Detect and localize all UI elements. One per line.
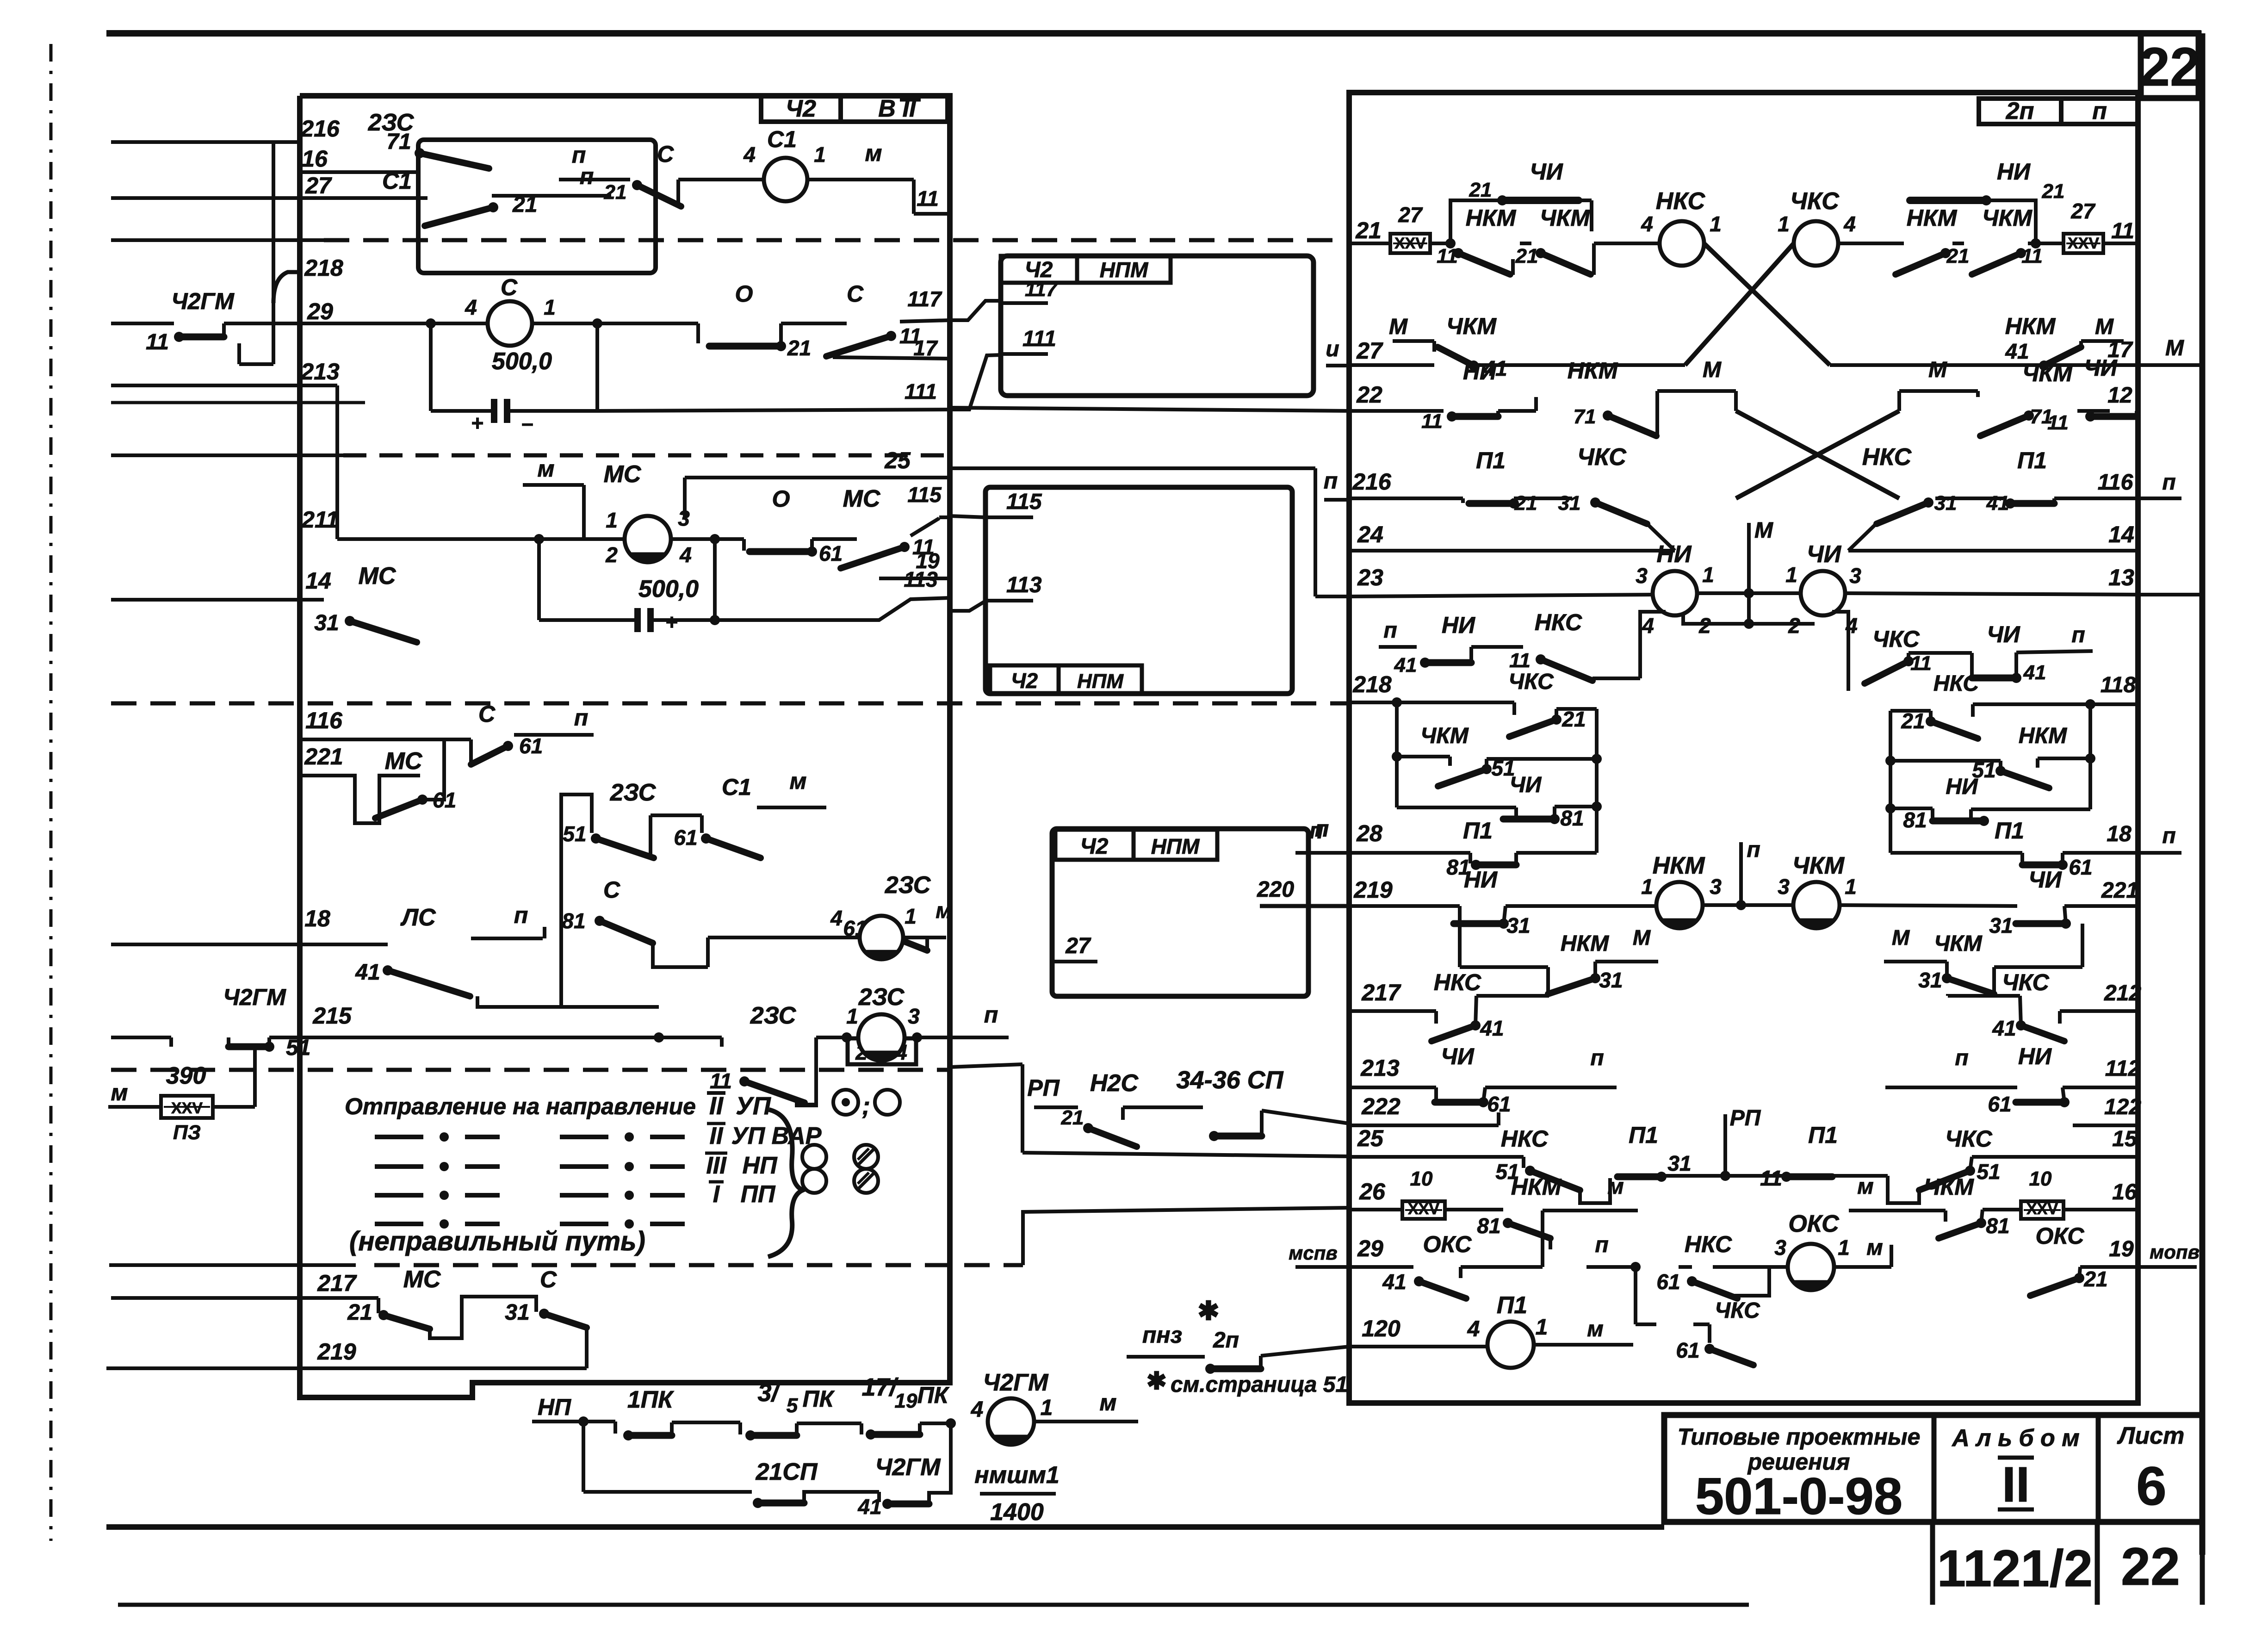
svg-text:11: 11 xyxy=(2021,245,2043,267)
svg-text:17: 17 xyxy=(913,336,938,360)
svg-text:п: п xyxy=(1309,818,1324,844)
svg-text:213: 213 xyxy=(1360,1055,1400,1081)
svg-text:71: 71 xyxy=(1574,405,1596,428)
svg-text:Типовые проектные: Типовые проектные xyxy=(1678,1424,1921,1450)
svg-text:НП: НП xyxy=(743,1152,778,1179)
svg-text:21: 21 xyxy=(1514,492,1537,515)
svg-text:41: 41 xyxy=(1480,1016,1504,1040)
svg-text:М: М xyxy=(2095,315,2114,339)
svg-text:НКМ: НКМ xyxy=(2005,313,2056,339)
svg-text:27: 27 xyxy=(305,173,332,199)
svg-text:2: 2 xyxy=(605,543,618,567)
svg-text:29: 29 xyxy=(307,298,333,324)
svg-text:мопв: мопв xyxy=(2150,1241,2200,1263)
svg-text:219: 219 xyxy=(317,1339,356,1365)
svg-text:1: 1 xyxy=(1041,1396,1053,1420)
svg-text:М: М xyxy=(1389,315,1408,339)
svg-text:41: 41 xyxy=(1992,1016,2016,1040)
svg-text:118: 118 xyxy=(2101,673,2136,697)
svg-text:п: п xyxy=(1590,1046,1604,1070)
svg-text:216: 216 xyxy=(1352,469,1392,495)
svg-text:3: 3 xyxy=(1710,875,1722,899)
svg-text:ПП: ПП xyxy=(741,1181,776,1208)
svg-text:п: п xyxy=(2092,98,2107,124)
svg-text:НКМ: НКМ xyxy=(1511,1174,1562,1200)
svg-text:501-0-98: 501-0-98 xyxy=(1695,1467,1902,1525)
svg-text:4: 4 xyxy=(1642,614,1654,638)
svg-text:5: 5 xyxy=(787,1394,798,1417)
svg-text:Ч2: Ч2 xyxy=(1080,834,1109,859)
svg-text:4: 4 xyxy=(1641,212,1653,236)
svg-text:пнз: пнз xyxy=(1142,1322,1182,1348)
svg-text:–: – xyxy=(521,411,533,435)
svg-text:М: М xyxy=(1928,358,1947,382)
svg-text:1: 1 xyxy=(606,508,618,532)
svg-text:м: м xyxy=(1857,1174,1874,1199)
svg-text:16: 16 xyxy=(302,146,328,172)
svg-text:11: 11 xyxy=(1760,1166,1782,1190)
svg-text:10: 10 xyxy=(1410,1167,1433,1190)
svg-text:4: 4 xyxy=(1467,1317,1480,1341)
svg-text:216: 216 xyxy=(300,116,340,142)
svg-text:500,0: 500,0 xyxy=(492,348,552,375)
svg-text:23: 23 xyxy=(1357,565,1383,590)
svg-text:1: 1 xyxy=(905,904,917,928)
svg-text:218: 218 xyxy=(304,255,343,281)
svg-text:14: 14 xyxy=(305,568,331,594)
svg-text:ЧИ: ЧИ xyxy=(1987,621,2020,647)
svg-text:28: 28 xyxy=(1356,820,1382,846)
svg-text:81: 81 xyxy=(1560,806,1584,830)
svg-text:Ч2: Ч2 xyxy=(786,95,816,122)
svg-text:II: II xyxy=(710,1123,724,1149)
svg-text:21: 21 xyxy=(347,1300,372,1325)
svg-text:НКМ: НКМ xyxy=(1561,931,1609,956)
svg-text:51: 51 xyxy=(563,822,586,846)
svg-text:19: 19 xyxy=(895,1390,917,1412)
svg-text:11: 11 xyxy=(1910,652,1932,675)
svg-text:п: п xyxy=(2162,824,2175,848)
svg-text:РП: РП xyxy=(1730,1106,1761,1130)
svg-text:21: 21 xyxy=(2042,180,2065,203)
svg-text:27: 27 xyxy=(1398,203,1423,227)
svg-text:П1: П1 xyxy=(1808,1122,1838,1148)
svg-text:71: 71 xyxy=(386,130,411,154)
svg-text:НИ: НИ xyxy=(1442,612,1475,638)
svg-text:ЧИ: ЧИ xyxy=(1530,159,1563,185)
svg-text:41: 41 xyxy=(1394,654,1417,677)
svg-text:1: 1 xyxy=(1838,1235,1850,1260)
svg-text:НКС: НКС xyxy=(1501,1126,1549,1152)
svg-text:81: 81 xyxy=(562,909,585,933)
svg-text:;: ; xyxy=(862,1092,870,1120)
svg-text:51: 51 xyxy=(1977,1160,2000,1184)
svg-text:НПМ: НПМ xyxy=(1077,670,1124,693)
svg-text:117: 117 xyxy=(1025,278,1059,301)
svg-text:21: 21 xyxy=(2083,1267,2107,1291)
svg-text:27: 27 xyxy=(2070,199,2096,223)
svg-text:3/: 3/ xyxy=(757,1379,781,1407)
svg-text:81: 81 xyxy=(1986,1214,2009,1238)
svg-text:3: 3 xyxy=(1849,564,1861,588)
svg-text:ЧИ: ЧИ xyxy=(1441,1043,1474,1069)
svg-text:11: 11 xyxy=(1509,649,1531,672)
svg-text:16: 16 xyxy=(2112,1180,2137,1204)
svg-text:Ч2: Ч2 xyxy=(1011,669,1038,693)
svg-text:ЧКМ: ЧКМ xyxy=(1420,724,1469,748)
svg-text:ЧКМ: ЧКМ xyxy=(1934,931,1982,956)
svg-text:п: п xyxy=(2162,470,2175,495)
svg-text:Ч2ГМ: Ч2ГМ xyxy=(875,1454,942,1481)
svg-text:113: 113 xyxy=(1006,573,1042,597)
svg-text:ПК: ПК xyxy=(803,1386,835,1412)
svg-text:41: 41 xyxy=(1986,492,2009,515)
svg-text:2ЗС: 2ЗС xyxy=(750,1002,797,1029)
svg-text:П1: П1 xyxy=(1497,1292,1527,1319)
svg-text:С1: С1 xyxy=(722,774,751,800)
svg-text:ЧКС: ЧКС xyxy=(1577,444,1627,471)
svg-text:31: 31 xyxy=(1506,913,1530,937)
svg-text:М: М xyxy=(1703,358,1722,382)
svg-text:21: 21 xyxy=(1061,1106,1084,1129)
svg-text:НКМ: НКМ xyxy=(1568,358,1618,384)
svg-text:ЧИ: ЧИ xyxy=(1807,541,1842,568)
svg-text:31: 31 xyxy=(1934,492,1957,515)
svg-text:М: М xyxy=(2165,336,2184,360)
svg-text:п: п xyxy=(1595,1233,1608,1257)
svg-text:С: С xyxy=(847,281,864,307)
svg-text:31: 31 xyxy=(1918,968,1942,992)
svg-text:31: 31 xyxy=(1989,913,2013,937)
svg-text:1: 1 xyxy=(1702,563,1714,587)
svg-text:212: 212 xyxy=(2104,981,2141,1006)
svg-text:4: 4 xyxy=(465,295,477,319)
svg-text:113: 113 xyxy=(904,567,938,591)
svg-text:Н2С: Н2С xyxy=(1090,1070,1139,1097)
svg-text:+: + xyxy=(471,411,484,435)
svg-text:I: I xyxy=(713,1181,720,1208)
svg-text:11: 11 xyxy=(2111,219,2134,243)
svg-text:С: С xyxy=(657,141,674,167)
svg-text:19: 19 xyxy=(2109,1237,2134,1261)
svg-text:см.страница 51: см.страница 51 xyxy=(1171,1372,1348,1397)
svg-text:НПМ: НПМ xyxy=(1151,834,1200,858)
svg-text:ПК: ПК xyxy=(917,1382,950,1408)
svg-text:41: 41 xyxy=(2005,339,2029,363)
svg-text:МС: МС xyxy=(604,461,642,488)
svg-text:НКС: НКС xyxy=(1933,671,1980,696)
svg-text:ЧКС: ЧКС xyxy=(2002,969,2049,995)
svg-text:29: 29 xyxy=(1357,1235,1383,1261)
svg-text:22: 22 xyxy=(2139,37,2200,98)
svg-text:27: 27 xyxy=(1356,338,1383,364)
svg-text:18: 18 xyxy=(2107,822,2132,846)
svg-text:м: м xyxy=(936,899,952,923)
svg-text:31: 31 xyxy=(314,611,339,635)
svg-text:218: 218 xyxy=(1352,671,1392,697)
svg-text:НКМ: НКМ xyxy=(2019,724,2067,748)
svg-text:11: 11 xyxy=(917,186,939,211)
svg-text:П1: П1 xyxy=(1476,447,1506,473)
svg-text:МС: МС xyxy=(403,1266,441,1293)
svg-text:21СП: 21СП xyxy=(756,1459,818,1485)
svg-text:24: 24 xyxy=(1357,521,1383,547)
svg-text:31: 31 xyxy=(1599,968,1623,992)
svg-text:ЧКМ: ЧКМ xyxy=(1540,205,1590,231)
svg-text:2ЗС: 2ЗС xyxy=(610,779,657,806)
svg-text:м: м xyxy=(111,1080,128,1105)
svg-text:4: 4 xyxy=(743,143,756,167)
svg-text:220: 220 xyxy=(1257,877,1294,902)
svg-text:м: м xyxy=(865,140,882,166)
svg-text:1: 1 xyxy=(1710,212,1722,236)
svg-text:(неправильный путь): (неправильный путь) xyxy=(349,1226,645,1256)
svg-text:21: 21 xyxy=(1946,245,1970,267)
svg-text:ЧКМ: ЧКМ xyxy=(1924,1174,1974,1200)
svg-text:21: 21 xyxy=(1355,217,1382,243)
svg-text:ОКС: ОКС xyxy=(1423,1231,1472,1257)
svg-text:С: С xyxy=(603,877,620,903)
svg-text:221: 221 xyxy=(304,744,343,770)
svg-text:217: 217 xyxy=(1361,980,1401,1006)
svg-text:26: 26 xyxy=(1359,1179,1386,1204)
svg-text:221: 221 xyxy=(2101,878,2138,903)
svg-text:Ч2ГМ: Ч2ГМ xyxy=(223,984,286,1010)
svg-text:2ЗС: 2ЗС xyxy=(858,984,905,1011)
svg-text:РП: РП xyxy=(1027,1075,1060,1101)
svg-text:3: 3 xyxy=(1778,875,1790,899)
svg-text:10: 10 xyxy=(2029,1167,2052,1190)
svg-text:М: М xyxy=(1633,925,1651,950)
svg-text:п: п xyxy=(984,1002,998,1028)
svg-text:3: 3 xyxy=(1636,564,1648,588)
svg-text:МС: МС xyxy=(385,748,423,775)
svg-text:НИ: НИ xyxy=(1657,541,1692,568)
svg-text:1: 1 xyxy=(846,1004,858,1028)
svg-text:117: 117 xyxy=(907,287,942,311)
svg-text:41: 41 xyxy=(857,1495,881,1519)
svg-text:6: 6 xyxy=(2136,1456,2167,1517)
svg-text:А л ь б о м: А л ь б о м xyxy=(1951,1425,2079,1452)
svg-text:С: С xyxy=(540,1266,557,1292)
svg-text:115: 115 xyxy=(1006,490,1042,514)
svg-text:✱: ✱ xyxy=(1198,1296,1220,1325)
svg-text:П1: П1 xyxy=(1629,1122,1658,1148)
svg-text:1: 1 xyxy=(1785,563,1797,587)
svg-text:ЧКС: ЧКС xyxy=(1508,670,1554,694)
svg-text:1: 1 xyxy=(814,143,826,167)
svg-text:11: 11 xyxy=(710,1069,732,1093)
svg-text:II: II xyxy=(2002,1456,2030,1512)
svg-text:61: 61 xyxy=(674,826,697,850)
svg-text:П1: П1 xyxy=(2017,447,2047,473)
svg-text:4: 4 xyxy=(1843,212,1856,236)
svg-text:ЧКС: ЧКС xyxy=(1872,626,1920,652)
svg-text:213: 213 xyxy=(300,359,340,385)
svg-text:Ч2ГМ: Ч2ГМ xyxy=(171,288,235,314)
svg-text:С1: С1 xyxy=(382,168,412,194)
svg-text:УП: УП xyxy=(736,1092,771,1120)
svg-text:НКС: НКС xyxy=(1535,609,1582,635)
svg-text:НКС: НКС xyxy=(1656,188,1706,215)
svg-text:500,0: 500,0 xyxy=(638,576,699,602)
svg-text:34-36 СП: 34-36 СП xyxy=(1177,1066,1284,1094)
svg-text:НКМ: НКМ xyxy=(1653,852,1706,879)
svg-text:1ПК: 1ПК xyxy=(627,1386,674,1413)
svg-text:НКС: НКС xyxy=(1434,969,1481,995)
svg-text:31: 31 xyxy=(505,1300,529,1325)
svg-text:390: 390 xyxy=(166,1062,206,1089)
svg-text:Ч2ГМ: Ч2ГМ xyxy=(983,1369,1049,1396)
svg-text:НИ: НИ xyxy=(1463,359,1497,385)
svg-text:ЛС: ЛС xyxy=(400,904,436,931)
svg-text:П1: П1 xyxy=(1995,818,2024,844)
svg-text:111: 111 xyxy=(905,379,937,404)
svg-text:п: п xyxy=(2071,623,2085,647)
svg-text:м: м xyxy=(1866,1235,1883,1260)
svg-text:МС: МС xyxy=(843,485,881,512)
svg-text:22: 22 xyxy=(2121,1537,2180,1596)
svg-text:С: С xyxy=(501,274,518,300)
svg-text:мспв: мспв xyxy=(1289,1242,1337,1264)
svg-text:1400: 1400 xyxy=(990,1499,1044,1526)
svg-text:81: 81 xyxy=(1903,808,1927,832)
svg-text:ЧИ: ЧИ xyxy=(2028,867,2062,893)
svg-text:ЧКМ: ЧКМ xyxy=(1982,205,2033,231)
svg-text:ЧКМ: ЧКМ xyxy=(1792,852,1845,879)
svg-text:31: 31 xyxy=(1667,1151,1691,1175)
svg-text:II: II xyxy=(709,1092,724,1120)
svg-text:21: 21 xyxy=(1515,245,1538,267)
svg-text:п: п xyxy=(514,902,528,928)
svg-text:12: 12 xyxy=(2107,383,2132,408)
svg-text:3: 3 xyxy=(1774,1235,1786,1260)
svg-text:13: 13 xyxy=(2108,565,2134,590)
svg-text:м: м xyxy=(1587,1317,1604,1341)
svg-text:116: 116 xyxy=(2098,470,2133,495)
svg-text:НП: НП xyxy=(538,1394,571,1420)
svg-text:1121/2: 1121/2 xyxy=(1937,1540,2093,1597)
svg-text:нмшм1: нмшм1 xyxy=(974,1462,1060,1489)
svg-text:ЧИ: ЧИ xyxy=(2084,355,2117,381)
svg-text:НПМ: НПМ xyxy=(1100,258,1149,282)
svg-text:1: 1 xyxy=(1641,875,1653,899)
svg-text:М: М xyxy=(1892,925,1910,950)
svg-text:120: 120 xyxy=(1362,1316,1400,1341)
svg-text:41: 41 xyxy=(1382,1270,1406,1294)
svg-text:ОКС: ОКС xyxy=(1788,1211,1840,1237)
svg-text:п: п xyxy=(1747,838,1760,862)
svg-text:МС: МС xyxy=(359,563,397,590)
svg-text:61: 61 xyxy=(1656,1270,1680,1294)
svg-text:18: 18 xyxy=(304,906,330,931)
svg-text:НИ: НИ xyxy=(1464,867,1498,893)
svg-text:15: 15 xyxy=(2112,1127,2138,1151)
svg-text:О: О xyxy=(735,281,753,307)
svg-text:XXV: XXV xyxy=(171,1099,203,1117)
svg-text:21: 21 xyxy=(787,336,811,360)
svg-text:ЧКМ: ЧКМ xyxy=(1446,313,1497,339)
svg-text:4: 4 xyxy=(830,906,843,930)
svg-text:2п: 2п xyxy=(1213,1328,1239,1353)
svg-text:4: 4 xyxy=(971,1397,984,1422)
svg-text:11: 11 xyxy=(146,330,169,354)
svg-text:ЧИ: ЧИ xyxy=(1510,773,1542,797)
svg-text:ЧКС: ЧКС xyxy=(1945,1126,1992,1152)
svg-text:ПЗ: ПЗ xyxy=(173,1121,201,1144)
svg-text:61: 61 xyxy=(1676,1338,1699,1362)
svg-text:ЧКС: ЧКС xyxy=(1790,188,1840,215)
svg-text:61: 61 xyxy=(2069,855,2092,879)
svg-text:1: 1 xyxy=(1778,212,1790,236)
svg-text:1: 1 xyxy=(1536,1315,1548,1340)
svg-text:✱: ✱ xyxy=(1146,1368,1167,1395)
svg-text:25: 25 xyxy=(884,447,911,473)
svg-text:п: п xyxy=(574,705,589,731)
svg-text:В: В xyxy=(878,95,896,122)
svg-text:22: 22 xyxy=(1356,382,1382,408)
svg-text:61: 61 xyxy=(1988,1092,2011,1116)
svg-text:11: 11 xyxy=(1421,410,1443,433)
svg-text:3: 3 xyxy=(908,1004,920,1028)
svg-text:219: 219 xyxy=(1353,877,1393,903)
svg-text:П1: П1 xyxy=(1463,818,1493,844)
svg-text:61: 61 xyxy=(819,541,843,565)
svg-text:п: п xyxy=(1955,1046,1968,1070)
svg-text:НКМ: НКМ xyxy=(1466,205,1517,231)
svg-text:С1: С1 xyxy=(767,126,797,152)
svg-text:217: 217 xyxy=(317,1270,357,1296)
svg-text:215: 215 xyxy=(312,1003,352,1029)
svg-text:п: п xyxy=(1324,468,1338,494)
svg-text:25: 25 xyxy=(1357,1125,1384,1151)
svg-text:122: 122 xyxy=(2104,1095,2141,1119)
svg-text:4: 4 xyxy=(679,543,692,567)
svg-text:17/: 17/ xyxy=(861,1373,899,1401)
svg-text:ЧКМ: ЧКМ xyxy=(2022,360,2073,386)
svg-text:222: 222 xyxy=(1361,1093,1400,1119)
svg-text:21: 21 xyxy=(604,181,627,204)
svg-text:О: О xyxy=(772,486,790,512)
svg-text:Отправление на направление: Отправление на направление xyxy=(345,1093,696,1119)
svg-text:п: п xyxy=(572,142,586,168)
svg-text:С: С xyxy=(478,701,496,727)
svg-text:НКС: НКС xyxy=(1685,1231,1732,1257)
svg-text:НИ: НИ xyxy=(1946,775,1978,799)
svg-text:м: м xyxy=(790,768,807,794)
svg-text:Лист: Лист xyxy=(2117,1422,2185,1449)
svg-text:14: 14 xyxy=(2108,521,2134,547)
svg-text:3: 3 xyxy=(678,506,690,530)
svg-text:ОКС: ОКС xyxy=(2035,1223,2084,1249)
svg-text:61: 61 xyxy=(519,734,543,758)
svg-text:и: и xyxy=(1326,337,1339,361)
svg-text:81: 81 xyxy=(1477,1214,1500,1238)
svg-text:115: 115 xyxy=(907,483,942,507)
svg-text:11: 11 xyxy=(2047,411,2069,434)
svg-text:41: 41 xyxy=(355,960,380,985)
svg-text:1: 1 xyxy=(544,295,556,319)
svg-text:м: м xyxy=(538,456,555,482)
svg-text:27: 27 xyxy=(1065,934,1091,958)
svg-text:м: м xyxy=(1100,1390,1117,1415)
svg-text:112: 112 xyxy=(2105,1056,2141,1081)
svg-text:м: м xyxy=(1607,1174,1624,1199)
svg-text:М: М xyxy=(1754,518,1773,543)
svg-text:п: п xyxy=(1383,618,1397,643)
svg-text:21: 21 xyxy=(1469,179,1492,201)
svg-text:НКМ: НКМ xyxy=(1907,205,1958,231)
